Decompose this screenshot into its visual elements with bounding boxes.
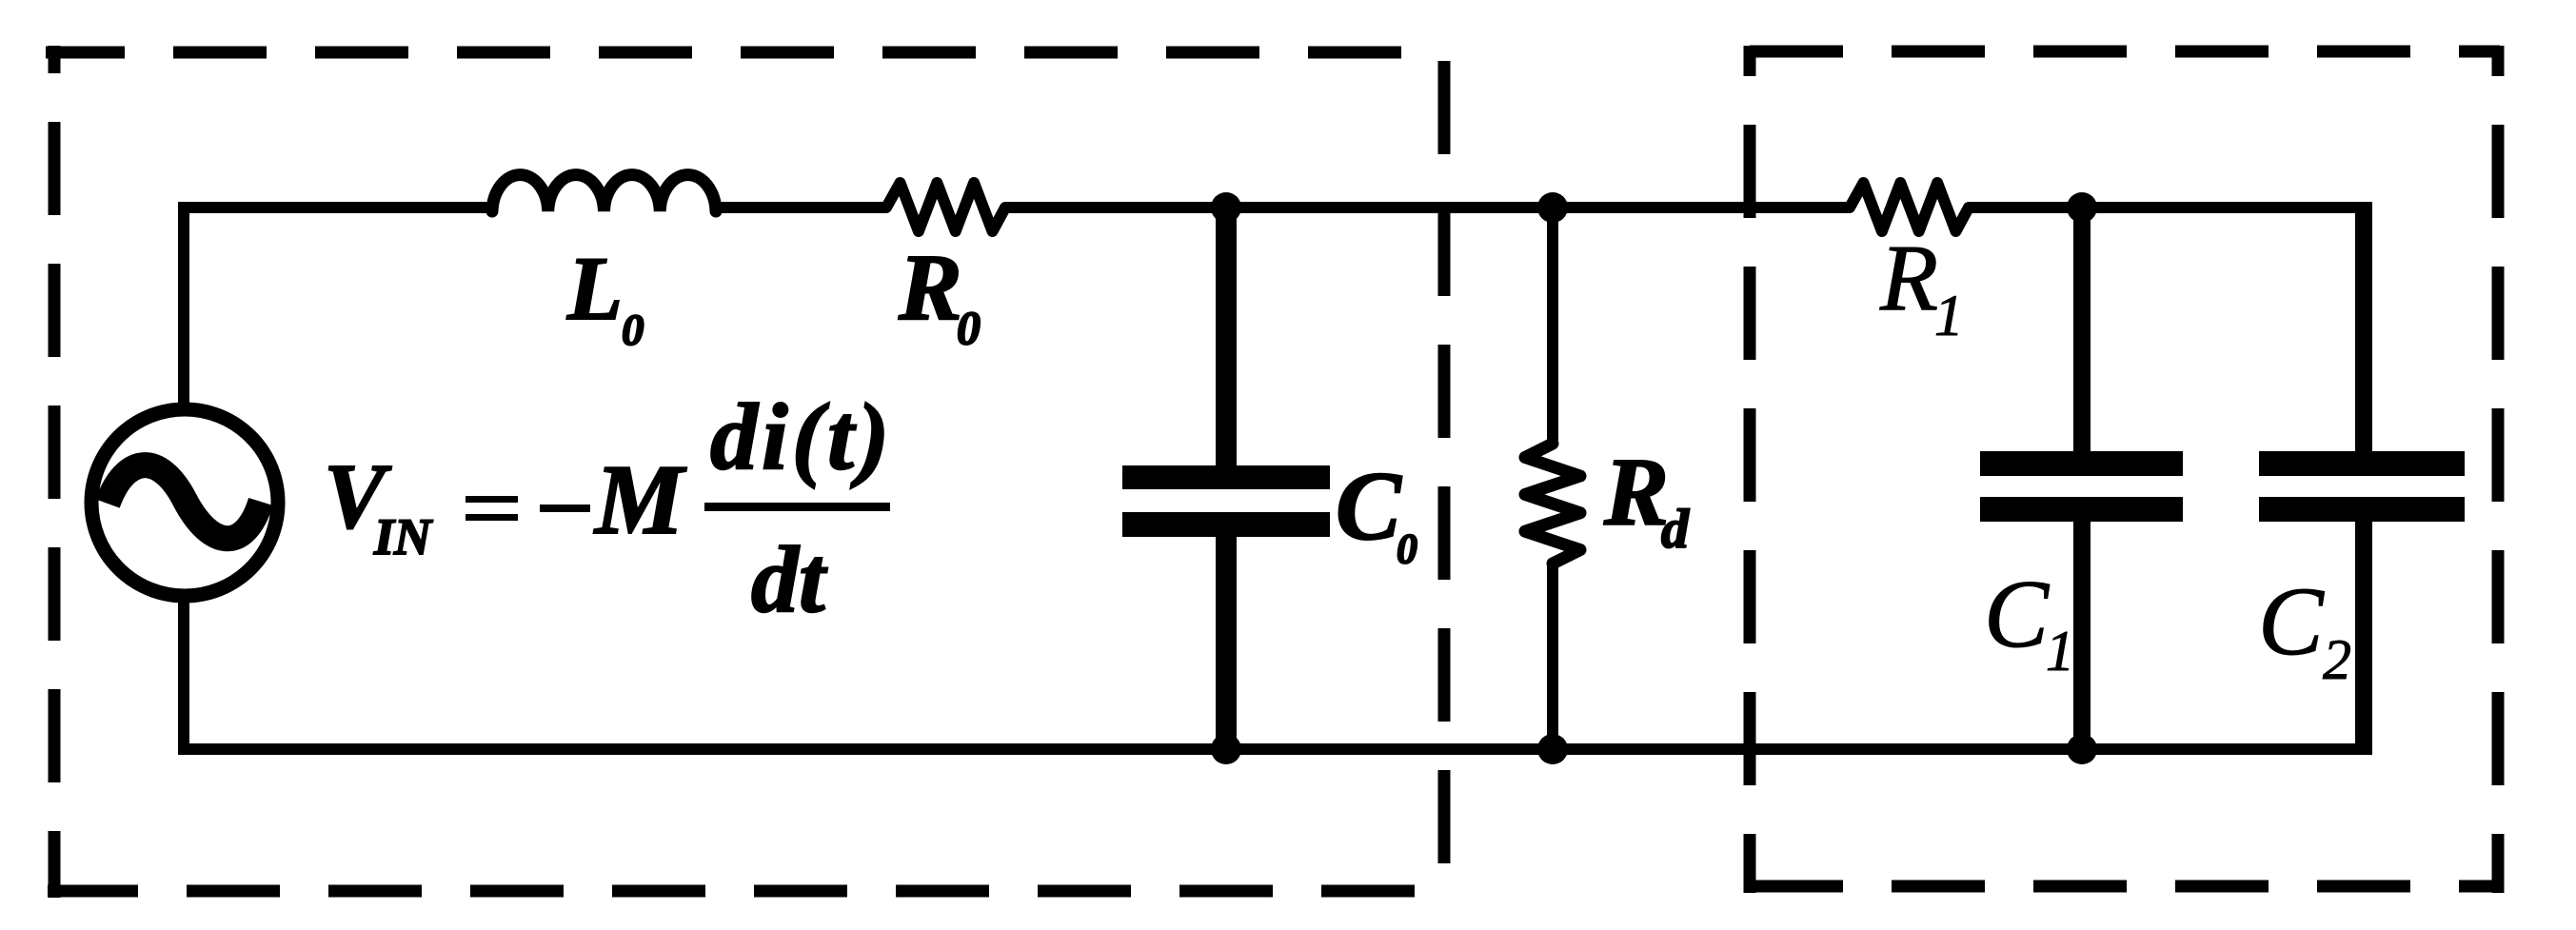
svg-text:C: C — [1984, 561, 2050, 668]
svg-text:1: 1 — [1934, 285, 1964, 348]
svg-text:R: R — [1603, 439, 1669, 546]
svg-text:0: 0 — [957, 301, 981, 354]
svg-text:C: C — [1336, 452, 1402, 561]
svg-text:0: 0 — [1397, 525, 1417, 572]
svg-text:M: M — [593, 444, 687, 555]
svg-text:dt: dt — [751, 526, 828, 632]
svg-text:R: R — [1879, 225, 1938, 330]
svg-text:L: L — [566, 238, 623, 339]
svg-text:R: R — [898, 234, 962, 340]
svg-text:di(t): di(t) — [710, 384, 893, 489]
svg-text:1: 1 — [2046, 620, 2074, 683]
svg-text:d: d — [1661, 498, 1690, 560]
svg-text:2: 2 — [2323, 628, 2351, 691]
svg-text:IN: IN — [373, 508, 433, 565]
svg-text:0: 0 — [622, 306, 644, 355]
svg-text:C: C — [2258, 567, 2325, 676]
